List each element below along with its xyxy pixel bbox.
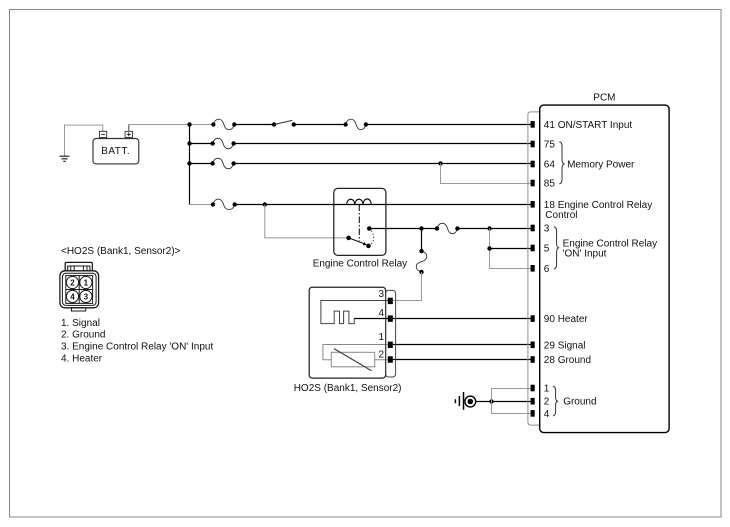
svg-text:29 Signal: 29 Signal — [544, 340, 586, 351]
fuse F2 — [343, 119, 368, 129]
svg-text:4. Heater: 4. Heater — [61, 354, 103, 365]
svg-text:1: 1 — [544, 384, 550, 395]
svg-text:4: 4 — [378, 308, 384, 319]
connector pictogram cavity frame — [66, 276, 93, 304]
ground G1 (battery ground) — [60, 156, 70, 161]
svg-text:Engine Control Relay: Engine Control Relay — [313, 258, 408, 269]
node junction ground — [489, 399, 493, 403]
wire row1 to PCM pin 41 — [366, 124, 531, 126]
wire to PCM pin 5 — [490, 248, 531, 250]
switch SW1 (ignition) — [272, 120, 296, 126]
PCM pin 6 square — [531, 265, 535, 272]
node junction pin3 net — [419, 226, 423, 230]
fuse F4 — [210, 158, 235, 169]
fuse F1 — [211, 119, 236, 129]
PCM pin 1 square — [531, 385, 535, 392]
svg-text:6: 6 — [544, 264, 550, 275]
connector pin circle 2 — [66, 276, 78, 288]
wire fuse to HO2S pin 3 — [393, 272, 422, 301]
svg-text:41 ON/START Input: 41 ON/START Input — [544, 120, 633, 131]
svg-text:3: 3 — [378, 289, 384, 300]
label 3. Engine Control Relay ON Input — [61, 342, 213, 353]
fuse F5 — [211, 199, 237, 210]
HO2S heater element — [321, 301, 389, 324]
pin label 29 Signal — [544, 340, 586, 351]
pin label 6 — [544, 264, 550, 275]
HO2S sensor resistor — [331, 349, 374, 371]
wire row2 to PCM pin 75 — [234, 143, 531, 145]
svg-text:3. Engine Control Relay 'ON' I: 3. Engine Control Relay 'ON' Input — [61, 342, 213, 353]
HO2S pin 1 square — [388, 342, 393, 348]
pin label 75 — [544, 140, 556, 151]
label Engine Control Relay — [313, 258, 408, 269]
HO2S pin number 2 — [378, 350, 384, 361]
PCM box — [540, 105, 669, 433]
PCM pin 29 square — [531, 342, 535, 349]
svg-text:28 Ground: 28 Ground — [544, 355, 591, 366]
node junction to pins 5 6 — [487, 226, 491, 230]
pin label 85 — [544, 179, 556, 190]
svg-text:1. Signal: 1. Signal — [61, 318, 100, 329]
fuse F3 — [210, 138, 235, 149]
connector pin circle 1 — [80, 276, 92, 288]
relay dotted throw arc — [369, 229, 374, 246]
svg-text:<HO2S (Bank1, Sensor2)>: <HO2S (Bank1, Sensor2)> — [61, 246, 181, 257]
brace Ground — [553, 386, 558, 416]
wire row1 stub to fuse — [190, 124, 214, 126]
wire relay switch feed — [265, 205, 349, 238]
wire main bus vertical — [189, 125, 191, 205]
HO2S pin number 3 — [378, 289, 384, 300]
wire row3 to PCM pin 64 — [234, 163, 531, 165]
svg-text:HO2S (Bank1, Sensor2): HO2S (Bank1, Sensor2) — [294, 383, 402, 394]
PCM pin 2 square — [531, 398, 535, 405]
connector pictogram latch tab — [65, 262, 92, 270]
PCM pin 85 square — [531, 180, 535, 187]
svg-text:PCM: PCM — [593, 93, 615, 104]
brace Memory Power — [559, 142, 564, 184]
label 1. Signal — [61, 318, 100, 329]
PCM pin 90 square — [531, 315, 535, 322]
HO2S pin 3 square — [388, 298, 393, 304]
wire row2 stub — [190, 143, 213, 145]
pin label 1 — [544, 384, 550, 395]
node bus row2 — [187, 141, 191, 145]
relay box Engine Control Relay — [334, 188, 386, 255]
connector pin circle 4 — [66, 290, 78, 302]
PCM pin 4 square — [531, 410, 535, 417]
PCM pin 3 square — [531, 225, 535, 232]
wire HO2S pin 1 to PCM pin 29 — [393, 344, 531, 346]
svg-text:4: 4 — [544, 409, 550, 420]
label Memory Power — [567, 159, 635, 170]
svg-text:1: 1 — [378, 332, 384, 343]
wire pin3 net down to fuse — [421, 229, 423, 252]
svg-text:2: 2 — [378, 350, 384, 361]
svg-text:64: 64 — [544, 160, 556, 171]
pin label 3 — [544, 224, 550, 235]
ground G2 (chassis) — [455, 392, 475, 410]
relay actuator dash-dot link — [358, 205, 360, 242]
brace Engine Control Relay ON Input — [554, 227, 559, 269]
svg-text:1: 1 — [84, 279, 89, 288]
wire HO2S pin 2 to PCM pin 28 — [393, 359, 531, 361]
PCM pin 64 square — [531, 161, 535, 168]
wire branches to PCM pins 1 and 4 — [492, 389, 531, 414]
wire relay output to PCM pin 3 — [369, 228, 437, 230]
label 4. Heater — [61, 354, 103, 365]
node bus row3 — [187, 161, 191, 165]
PCM pin 5 square — [531, 245, 535, 252]
label PCM — [593, 93, 615, 104]
relay coil L1 — [347, 199, 372, 205]
wire battery negative to ground — [65, 125, 103, 156]
svg-text:5: 5 — [544, 244, 550, 255]
HO2S sensor wires — [323, 345, 389, 360]
svg-text:85: 85 — [544, 179, 556, 190]
HO2S pin number 4 — [378, 308, 384, 319]
PCM pin 41 square — [531, 121, 535, 128]
wire fuse to PCM pin 3 — [457, 228, 530, 230]
wire row4 to relay coil — [235, 204, 531, 206]
svg-text:3: 3 — [544, 224, 550, 235]
svg-text:3: 3 — [84, 293, 89, 302]
HO2S pin number 1 — [378, 332, 384, 343]
label HO2S (Bank1, Sensor2) — [294, 383, 402, 394]
pin label 28 Ground — [544, 355, 591, 366]
PCM pin 28 square — [531, 356, 535, 363]
label 2. Ground — [61, 330, 105, 341]
svg-text:2. Ground: 2. Ground — [61, 330, 105, 341]
HO2S connector strip — [386, 290, 396, 377]
svg-text:BATT.: BATT. — [101, 146, 130, 157]
pin label 64 — [544, 160, 556, 171]
label Ground — [563, 397, 596, 408]
fuse F6 — [435, 223, 460, 234]
fuse F7 (vertical) — [416, 249, 427, 274]
label Engine Control Relay ON Input — [563, 239, 658, 260]
pin label 5 — [544, 244, 550, 255]
svg-text:90 Heater: 90 Heater — [544, 314, 589, 325]
node junction row4 switch feed — [263, 202, 267, 206]
node junction row3 to 85 — [438, 161, 442, 165]
svg-text:2: 2 — [70, 279, 75, 288]
svg-text:Memory Power: Memory Power — [567, 159, 635, 170]
svg-text:2: 2 — [544, 397, 550, 408]
PCM connector strip — [528, 112, 540, 425]
connector pin circle 3 — [80, 290, 92, 302]
pin label 41 ON/START Input — [544, 120, 633, 131]
PCM pin 75 square — [531, 141, 535, 148]
wire HO2S pin 4 heater to PCM pin 90 — [354, 318, 530, 320]
wire row1 fuse to switch — [234, 124, 274, 126]
wire row4 stub — [190, 204, 214, 206]
pin label 18 Engine Control Relay Control — [544, 200, 652, 221]
svg-text:Ground: Ground — [563, 397, 596, 408]
connector pictogram body — [60, 271, 99, 311]
svg-text:4: 4 — [70, 293, 75, 302]
pin label 4 — [544, 409, 550, 420]
pin label 90 Heater — [544, 314, 589, 325]
svg-text:'ON' Input: 'ON' Input — [563, 249, 607, 260]
pin label 2 — [544, 397, 550, 408]
relay switch arm — [349, 238, 367, 246]
wire branch down pins 5 6 — [490, 229, 531, 269]
HO2S box — [309, 287, 385, 378]
wire row1 switch to fuse2 — [294, 124, 346, 126]
node bus row1 — [187, 122, 191, 126]
HO2S pin 4 square — [388, 315, 393, 321]
wire branch to PCM pin 85 — [441, 164, 531, 184]
svg-text:Control: Control — [545, 210, 577, 221]
battery BATT. — [93, 131, 139, 164]
HO2S pin 2 square — [388, 356, 393, 362]
node junction pin 5 — [487, 246, 491, 250]
wire row3 stub — [190, 163, 213, 165]
label HO2S connector title — [61, 246, 181, 257]
PCM pin 18 square — [531, 201, 535, 208]
wire battery positive to bus — [129, 125, 190, 132]
relay contact dots — [346, 226, 371, 248]
svg-text:75: 75 — [544, 140, 556, 151]
wire ground to PCM pin 2 — [476, 401, 531, 403]
